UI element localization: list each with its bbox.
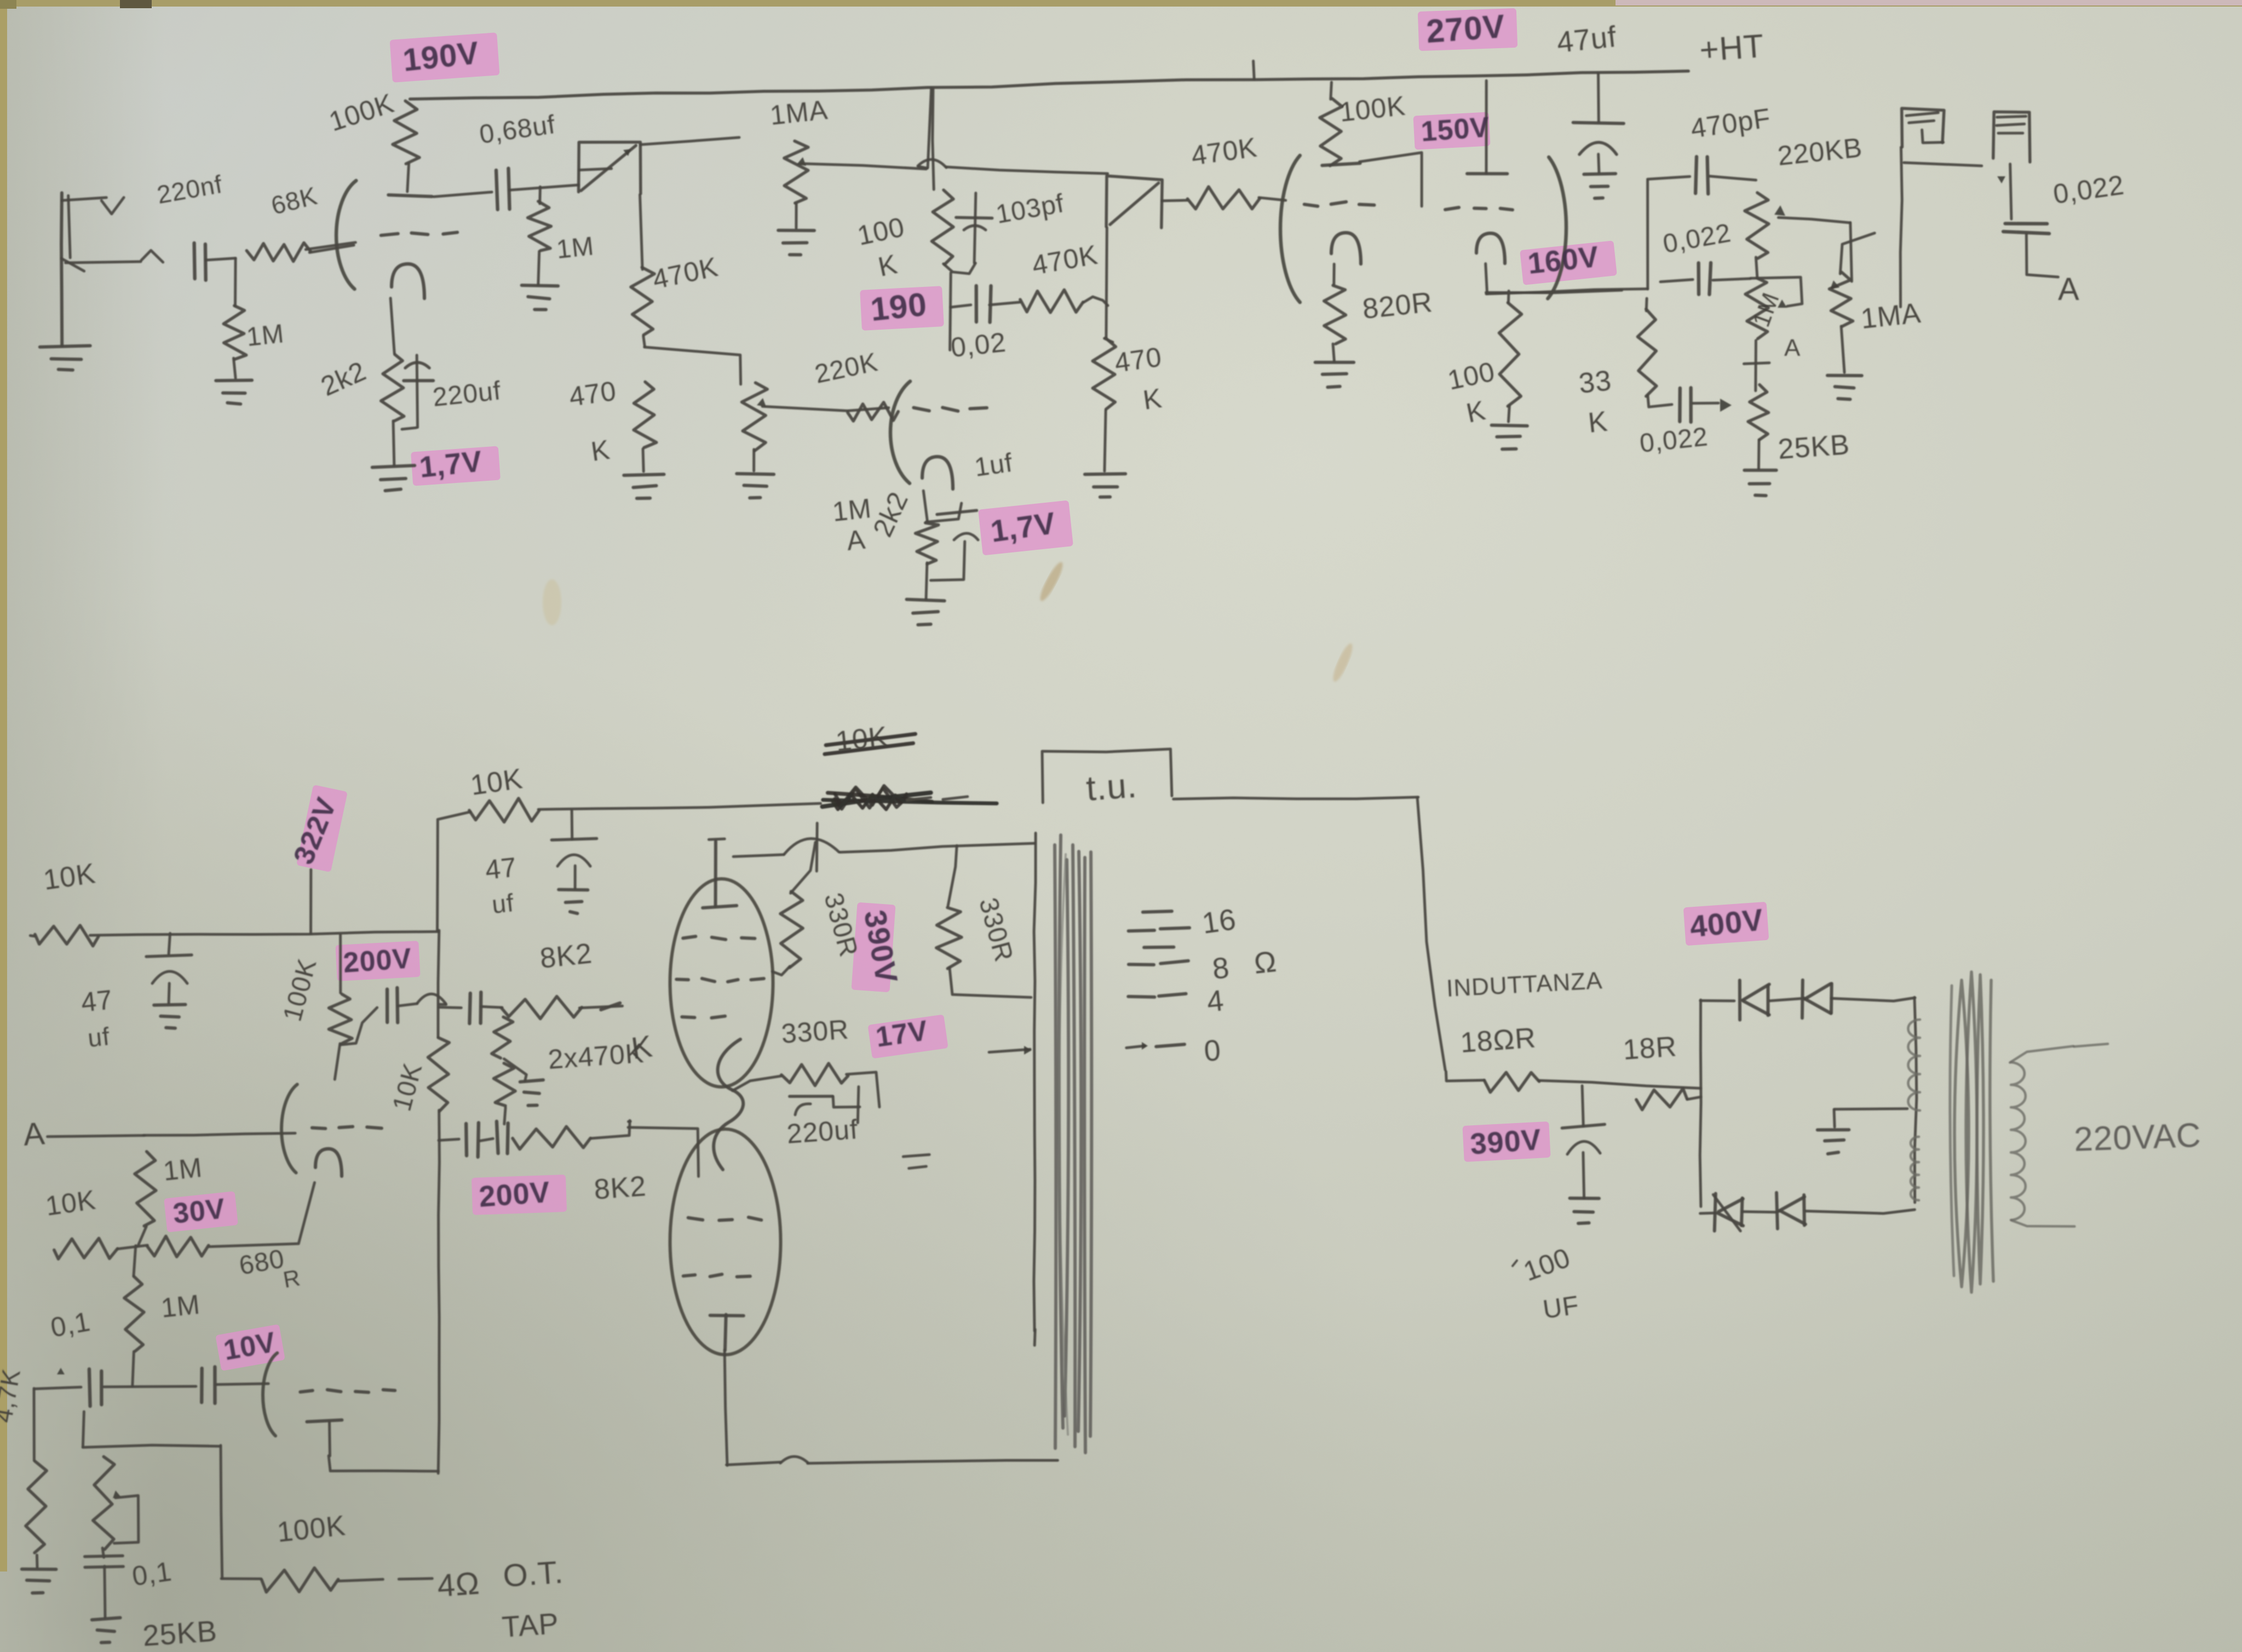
svg-text:200V: 200V (478, 1176, 551, 1213)
svg-text:uf: uf (491, 888, 516, 919)
svg-text:47: 47 (484, 851, 518, 885)
svg-text:1M: 1M (162, 1152, 204, 1187)
svg-text:1uf: 1uf (973, 448, 1014, 482)
svg-text:8: 8 (1211, 951, 1231, 986)
svg-text:8K2: 8K2 (593, 1170, 647, 1206)
svg-text:1M: 1M (831, 493, 873, 527)
svg-text:150V: 150V (1420, 111, 1491, 148)
svg-text:1MA: 1MA (768, 94, 829, 131)
svg-text:18R: 18R (1622, 1031, 1678, 1066)
svg-text:0,02: 0,02 (949, 327, 1008, 363)
svg-text:220uf: 220uf (786, 1114, 859, 1149)
svg-text:A: A (1784, 335, 1801, 361)
svg-text:330R: 330R (780, 1014, 850, 1049)
svg-text:18ΩR: 18ΩR (1459, 1022, 1537, 1059)
svg-text:1,7V: 1,7V (418, 445, 484, 484)
svg-text:4Ω: 4Ω (436, 1565, 481, 1604)
svg-text:uf: uf (87, 1022, 112, 1052)
svg-text:47uf: 47uf (1555, 20, 1618, 59)
svg-text:33: 33 (1577, 365, 1613, 400)
svg-text:8K2: 8K2 (538, 937, 594, 975)
svg-text:t.u.: t.u. (1085, 765, 1139, 808)
svg-text:30V: 30V (171, 1193, 227, 1230)
svg-text:A: A (2058, 272, 2080, 307)
svg-text:4: 4 (1205, 984, 1226, 1018)
svg-text:16: 16 (1200, 903, 1238, 940)
svg-text:25KB: 25KB (142, 1615, 219, 1652)
svg-text:1MA: 1MA (1859, 297, 1922, 335)
svg-text:390V: 390V (1469, 1123, 1543, 1161)
svg-text:K: K (1586, 406, 1609, 439)
svg-text:270V: 270V (1425, 8, 1506, 50)
svg-text:200V: 200V (342, 942, 413, 979)
svg-text:A: A (22, 1115, 46, 1153)
svg-text:220VAC: 220VAC (2073, 1116, 2202, 1159)
svg-text:1M: 1M (159, 1289, 202, 1323)
svg-text:190: 190 (869, 286, 929, 328)
svg-text:UF: UF (1541, 1291, 1581, 1325)
svg-text:Ω: Ω (1252, 945, 1278, 980)
svg-text:10K: 10K (834, 721, 889, 758)
svg-text:0: 0 (1203, 1034, 1222, 1068)
svg-text:1M: 1M (245, 319, 286, 352)
svg-text:220KB: 220KB (1851, 99, 1870, 105)
svg-text:1M: 1M (555, 232, 596, 264)
svg-text:+HT: +HT (1698, 27, 1765, 68)
svg-text:TAP: TAP (501, 1607, 560, 1644)
svg-text:25KB: 25KB (1777, 429, 1851, 465)
svg-text:47: 47 (79, 984, 114, 1018)
svg-text:O.T.: O.T. (502, 1554, 565, 1594)
svg-text:470: 470 (1113, 341, 1164, 378)
svg-text:470: 470 (567, 375, 618, 412)
svg-text:0,1: 0,1 (130, 1556, 174, 1592)
svg-text:A: A (845, 524, 867, 556)
